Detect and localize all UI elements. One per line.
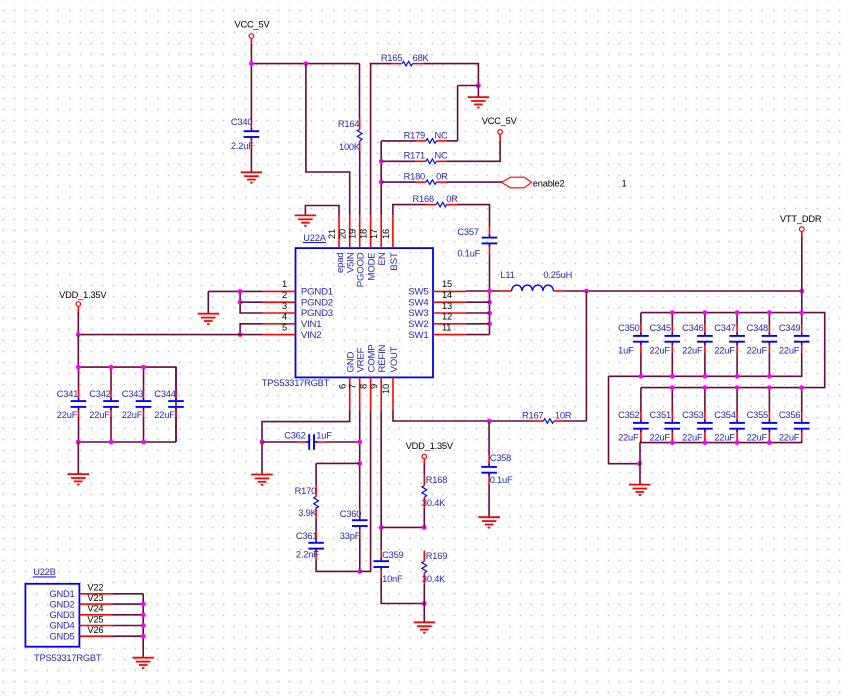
svg-text:0.25uH: 0.25uH [543, 270, 572, 280]
junction at (705,388) [703, 385, 708, 390]
pin 7 VREF (bottom) [348, 347, 367, 410]
svg-text:PGND2: PGND2 [301, 297, 333, 308]
wire GND1 to bus [112, 593, 143, 595]
wire REFIN column (pin 9) [380, 410, 382, 550]
svg-text:22uF: 22uF [650, 433, 671, 443]
capacitor C354 [714, 410, 745, 443]
svg-text:C358: C358 [490, 453, 511, 463]
svg-text:R166: R166 [413, 194, 434, 204]
svg-text:3.9K: 3.9K [298, 508, 317, 518]
junction at (490,291) [487, 289, 492, 294]
junction at (705,313) [703, 310, 708, 315]
wire C356 column [801, 388, 803, 412]
svg-text:22uF: 22uF [682, 433, 703, 443]
svg-text:C348: C348 [747, 323, 768, 333]
ground below C358 [478, 517, 500, 527]
wire VDD down to cap bank [77, 335, 79, 368]
wire C358 branch [488, 421, 490, 456]
junction at (424,527) [422, 525, 427, 530]
wire SW3 row [466, 312, 490, 314]
wire VDD rail to VIN2 [78, 334, 262, 336]
svg-text:GND1: GND1 [49, 589, 74, 599]
wire row1 bottom-left detour [609, 376, 640, 463]
wire VTT down to cap bank [801, 291, 803, 313]
junction at (769,313) [767, 310, 772, 315]
svg-text:L11: L11 [500, 270, 514, 280]
svg-text:4: 4 [282, 312, 287, 322]
resistor R180 [404, 172, 448, 185]
wire SW2 row [466, 323, 490, 325]
pin 8 COMP (bottom) [359, 345, 378, 411]
wire L11 to VTT rail [564, 290, 802, 292]
pin 2 PGND2 (left) [263, 290, 333, 308]
wire EN bus (pin 17) [380, 141, 382, 216]
svg-text:C349: C349 [779, 323, 800, 333]
svg-text:C360: C360 [340, 509, 361, 519]
svg-text:C345: C345 [650, 323, 671, 333]
pin 4 VIN1 (left) [263, 312, 322, 330]
svg-text:10nF: 10nF [382, 574, 403, 584]
junction at (240,302) [238, 300, 243, 305]
svg-text:V22: V22 [87, 583, 103, 593]
svg-text:R171: R171 [404, 151, 425, 161]
svg-text:C346: C346 [682, 323, 703, 333]
wire left bank to ground [77, 442, 79, 474]
wire SW1 row [466, 334, 490, 336]
pin 3 PGND3 (left) [263, 301, 333, 319]
svg-text:BST: BST [389, 252, 400, 270]
resistor R166 [413, 194, 459, 207]
svg-text:VDD_1.35V: VDD_1.35V [59, 290, 107, 300]
svg-text:R180: R180 [404, 172, 425, 182]
svg-text:1: 1 [622, 179, 627, 189]
junction at (737,443) [735, 440, 740, 445]
wire GND3 to bus [112, 614, 143, 616]
svg-text:NC: NC [435, 151, 449, 161]
junction at (737,388) [735, 385, 740, 390]
junction at (143,604) [141, 602, 146, 607]
junction at (78,335) [76, 332, 81, 337]
svg-text:COMP: COMP [367, 345, 378, 373]
wire right bank row1 top-left drop [640, 313, 642, 325]
ground below C362 [251, 475, 273, 485]
pin 9 REFIN (bottom) [369, 344, 388, 410]
svg-text:GND3: GND3 [49, 610, 74, 620]
svg-text:C353: C353 [682, 410, 703, 420]
power symbol VDD_1.35V (right) [406, 441, 454, 467]
resistor R165 [381, 53, 430, 66]
wire pin6 GND to C362 node [262, 410, 350, 442]
junction at (769,443) [767, 440, 772, 445]
svg-text:22uF: 22uF [779, 346, 800, 356]
svg-text:18: 18 [359, 229, 369, 239]
pin 15 SW5 (right) [408, 279, 466, 297]
svg-text:1uF: 1uF [316, 431, 332, 441]
svg-text:U22B: U22B [33, 567, 55, 577]
pin 14 SW4 (right) [408, 290, 466, 308]
svg-text:22uF: 22uF [650, 346, 671, 356]
resistor R171 [404, 151, 448, 164]
svg-text:SW5: SW5 [408, 287, 428, 298]
junction at (240,291) [238, 289, 243, 294]
svg-text:V25: V25 [87, 614, 103, 624]
svg-text:U22A: U22A [303, 233, 326, 243]
wire VCC_5V symbol to rail [250, 44, 252, 64]
wire C347 column [736, 313, 738, 325]
pin 21 epad (top) [327, 215, 346, 273]
svg-text:SW4: SW4 [408, 297, 429, 308]
wire comp rail to COMP pin [359, 537, 361, 571]
wire C340 to ground [250, 148, 252, 172]
wire R180 row left [381, 181, 416, 183]
wire R170 branch [316, 462, 360, 464]
svg-text:30.4K: 30.4K [422, 574, 446, 584]
svg-text:C362: C362 [284, 431, 305, 441]
capacitor C362 [262, 431, 360, 450]
svg-text:21: 21 [327, 229, 337, 239]
svg-text:100K: 100K [339, 142, 361, 152]
inductor L11 [500, 270, 572, 291]
wire BST to R166 (pin 16) [393, 205, 426, 216]
power symbol VTT_DDR [780, 214, 822, 239]
svg-text:3: 3 [282, 301, 287, 311]
svg-text:10: 10 [381, 384, 391, 394]
resistor R168 [422, 475, 447, 509]
svg-text:VIN1: VIN1 [301, 319, 322, 330]
junction at (705,376) [703, 374, 708, 379]
junction at (251,64) [249, 61, 254, 66]
wire C358 to ground [488, 484, 490, 518]
pin V26 GND5 U22B [49, 625, 112, 641]
junction at (424,604) [422, 601, 427, 606]
junction at (143,615) [141, 612, 146, 617]
junction at (381,527) [379, 525, 384, 530]
wire R165 to ground corner [423, 64, 478, 86]
pin 1 PGND1 (left) [263, 279, 333, 297]
svg-text:MODE: MODE [367, 253, 378, 281]
svg-text:7: 7 [348, 384, 358, 389]
capacitor C340 [231, 117, 259, 151]
svg-text:VOUT: VOUT [389, 346, 400, 372]
capacitor C347 [714, 323, 745, 356]
pin 10 VOUT (bottom) [381, 346, 400, 410]
wire C340 branch down [250, 64, 252, 121]
junction at (802,313) [799, 310, 804, 315]
junction at (586,291) [584, 289, 589, 294]
ground U22B [132, 658, 154, 668]
wire C354 column [736, 388, 738, 412]
wire C355 column [768, 388, 770, 412]
svg-text:V23: V23 [87, 593, 103, 603]
svg-text:8: 8 [359, 384, 369, 389]
wire to ground [423, 604, 425, 623]
capacitor C349 [779, 323, 810, 356]
junction at (78,367) [76, 365, 81, 370]
svg-text:enable2: enable2 [533, 179, 565, 189]
svg-text:SW3: SW3 [408, 308, 428, 319]
pin 5 VIN2 (left) [263, 322, 322, 340]
junction at (737,376) [735, 374, 740, 379]
IC U22B (TPS53317RGBT ground pins) [25, 567, 101, 663]
svg-text:22uF: 22uF [618, 433, 639, 443]
pin 20 V5IN (top) [338, 215, 357, 273]
svg-text:C352: C352 [618, 410, 639, 420]
junction at (143,636) [141, 634, 146, 639]
pin 16 BST (top) [381, 215, 400, 270]
wire V5IN branch (pin 20) [306, 64, 350, 216]
svg-text:R168: R168 [426, 475, 447, 485]
wire MODE to R165 (pin 18) [371, 64, 392, 216]
junction at (672,443) [670, 440, 675, 445]
power symbol VDD_1.35V (left) [59, 290, 107, 314]
wire SW5 row to L11 [466, 290, 501, 292]
wire to ground (R165 net) [477, 86, 479, 98]
junction at (769,376) [767, 374, 772, 379]
svg-text:PGND1: PGND1 [301, 287, 333, 298]
wire GND2 to bus [112, 603, 143, 605]
svg-text:2.2nF: 2.2nF [296, 550, 319, 560]
capacitor C352 [618, 410, 649, 443]
junction at (672,376) [670, 374, 675, 379]
wire R180 right to port [447, 181, 503, 183]
wire R169 bottom [423, 584, 425, 604]
svg-text:R165: R165 [381, 53, 402, 63]
svg-text:22uF: 22uF [714, 346, 735, 356]
svg-text:C359: C359 [382, 550, 403, 560]
junction at (143,626) [141, 623, 146, 628]
wire U22B ground bus [142, 594, 144, 658]
resistor R179 [404, 130, 448, 143]
svg-text:C341: C341 [57, 389, 78, 399]
wire R170 to C361 [315, 518, 317, 532]
wire C343 column [143, 367, 145, 391]
svg-text:NC: NC [435, 130, 449, 140]
svg-text:0.1uF: 0.1uF [457, 249, 480, 259]
svg-text:VDD_1.35V: VDD_1.35V [406, 441, 454, 451]
capacitor C344 [154, 389, 184, 420]
svg-text:22uF: 22uF [89, 410, 110, 420]
junction at (490,313) [487, 311, 492, 316]
svg-text:GND4: GND4 [49, 621, 74, 631]
wire VDD symbol down [77, 312, 79, 335]
svg-text:5: 5 [282, 322, 287, 332]
svg-text:17: 17 [369, 229, 379, 239]
junction at (111,442) [109, 440, 114, 445]
junction at (381,161) [379, 159, 384, 164]
power symbol VCC_5V (top left) [235, 19, 271, 46]
svg-text:1uF: 1uF [618, 346, 634, 356]
wire PGND ground branch [207, 291, 209, 313]
svg-text:6: 6 [338, 384, 348, 389]
svg-text:C342: C342 [89, 389, 110, 399]
junction at (306,64) [304, 61, 309, 66]
capacitor C359 [373, 550, 403, 584]
svg-text:C361: C361 [296, 531, 317, 541]
wire VCC rail [251, 63, 359, 65]
capacitor C346 [682, 323, 713, 356]
svg-text:68K: 68K [413, 53, 430, 63]
capacitor C357 [457, 227, 497, 259]
svg-text:VCC_5V: VCC_5V [235, 19, 271, 29]
wire C361 to comp rail [316, 560, 360, 572]
capacitor C356 [779, 410, 810, 443]
svg-text:REFIN: REFIN [377, 344, 388, 372]
svg-text:22uF: 22uF [714, 433, 735, 443]
junction at (360,463) [357, 461, 362, 466]
svg-text:R179: R179 [404, 130, 425, 140]
off-page port enable2 [502, 177, 565, 188]
svg-text:19: 19 [348, 229, 358, 239]
svg-text:SW1: SW1 [408, 330, 428, 341]
wire R166 right to C357 [457, 205, 490, 227]
capacitor C345 [650, 323, 681, 356]
svg-text:0R: 0R [436, 172, 448, 182]
power symbol VCC_5V (second) [482, 116, 518, 142]
junction at (262,442) [260, 440, 265, 445]
wire row2 left down to ground [639, 443, 641, 485]
capacitor C361 [296, 531, 324, 559]
wire PGND bus [240, 291, 263, 313]
junction at (111,367) [109, 365, 114, 370]
wire right bank row1 bottom bus [609, 353, 802, 377]
wire left bank bottom bus [78, 441, 176, 443]
svg-text:16: 16 [381, 229, 391, 239]
svg-text:C344: C344 [154, 389, 175, 399]
wire GND4 to bus [112, 625, 143, 627]
pin 18 MODE (top) [359, 215, 378, 280]
svg-text:C340: C340 [231, 117, 252, 127]
junction at (144,442) [141, 440, 146, 445]
svg-text:C351: C351 [650, 410, 671, 420]
svg-text:R169: R169 [426, 551, 447, 561]
ground for R165/R179 node [468, 97, 490, 107]
svg-text:epad: epad [335, 253, 346, 274]
wire right bank row1 top bus [641, 313, 825, 388]
capacitor C353 [682, 410, 713, 443]
svg-text:22uF: 22uF [122, 410, 143, 420]
svg-text:22uF: 22uF [747, 433, 768, 443]
pin V22 GND1 U22B [49, 583, 112, 599]
wire VDD to R168 [423, 465, 425, 475]
wire C349 column [801, 313, 803, 325]
junction at (802,291) [799, 289, 804, 294]
wire R164/PGOOD branch (pin 19) [359, 64, 361, 119]
wire R171 row left [381, 160, 416, 162]
svg-text:C350: C350 [618, 323, 639, 333]
pin 17 EN (top) [369, 215, 388, 265]
wire VOUT rail (pin 10) [393, 410, 533, 421]
wire VIN1 branch [240, 324, 263, 335]
wire left bank top bus [78, 367, 176, 442]
wire C344 column [175, 367, 177, 391]
ground left bank [68, 474, 90, 484]
junction at (360,571) [357, 569, 362, 574]
wire SW4 row [466, 301, 490, 303]
pin 19 PGOOD (top) [348, 215, 367, 287]
wire epad to ground [305, 206, 339, 216]
capacitor C358 [481, 453, 513, 485]
resistor R170 [295, 486, 319, 519]
svg-text:33pF: 33pF [340, 531, 361, 541]
pin 11 SW1 (right) [408, 322, 466, 340]
svg-text:11: 11 [442, 322, 451, 332]
svg-text:VTT_DDR: VTT_DDR [780, 214, 822, 224]
wire right bank row2 top bus [641, 387, 802, 389]
junction at (490,324) [487, 321, 492, 326]
svg-text:0R: 0R [446, 194, 458, 204]
pin V25 GND4 U22B [49, 614, 112, 630]
wire REFIN to divider node [381, 526, 424, 528]
capacitor C355 [747, 410, 778, 443]
op-amp U22A (TPS53317RGBT regulator symbol) [262, 233, 433, 388]
svg-text:20: 20 [338, 229, 348, 239]
pin V24 GND3 U22B [49, 604, 112, 620]
svg-text:22uF: 22uF [682, 346, 703, 356]
junction at (78,442) [76, 440, 81, 445]
svg-text:C357: C357 [457, 227, 478, 237]
wire C345 column [671, 313, 673, 325]
wire VTT symbol down [801, 237, 803, 291]
svg-text:22uF: 22uF [154, 410, 175, 420]
svg-text:13: 13 [442, 301, 452, 311]
svg-text:TPS53317RGBT: TPS53317RGBT [262, 378, 330, 388]
svg-text:GND5: GND5 [49, 631, 74, 641]
svg-text:PGOOD: PGOOD [356, 252, 367, 287]
svg-text:0.1uF: 0.1uF [490, 475, 513, 485]
wire SW bus vertical [489, 291, 491, 335]
svg-text:C347: C347 [714, 323, 735, 333]
svg-text:14: 14 [442, 290, 452, 300]
svg-text:1: 1 [282, 279, 287, 289]
junction at (78,367) [76, 365, 81, 370]
wire VREF column (pin 7) [359, 410, 361, 509]
junction at (640,464) [637, 461, 642, 466]
wire R171 right to VCC_5V [447, 142, 500, 162]
wire R167 right up to SW node [564, 420, 586, 422]
capacitor C342 [89, 389, 119, 420]
svg-text:22uF: 22uF [779, 433, 800, 443]
svg-text:EN: EN [377, 252, 388, 265]
capacitor C341 [57, 389, 87, 420]
svg-text:2: 2 [282, 290, 287, 300]
svg-text:VREF: VREF [356, 347, 367, 372]
pin 12 SW2 (right) [408, 312, 466, 330]
svg-text:VCC_5V: VCC_5V [482, 116, 518, 126]
junction at (705,443) [703, 440, 708, 445]
wire C348 column [768, 313, 770, 325]
wire C342 column [110, 367, 112, 391]
resistor R164 [338, 118, 362, 151]
capacitor C351 [650, 410, 681, 443]
wire PGND1 row [208, 290, 262, 292]
wire R179 branch from ground node [458, 85, 479, 87]
ground for epad [295, 215, 317, 225]
svg-text:PGND3: PGND3 [301, 308, 333, 319]
junction at (240,335) [238, 332, 243, 337]
junction at (769,388) [767, 385, 772, 390]
junction at (489,421) [487, 419, 492, 424]
wire R168 to node [423, 508, 425, 527]
svg-text:V24: V24 [87, 604, 103, 614]
wire C357 to SW node [489, 254, 491, 291]
wire C341 column [78, 367, 80, 391]
svg-text:30.4K: 30.4K [422, 498, 446, 508]
wire row2 top-left drop [640, 388, 642, 412]
pin V23 GND2 U22B [49, 593, 112, 609]
junction at (381,182) [379, 180, 384, 185]
svg-text:V26: V26 [87, 625, 103, 635]
capacitor C360 [340, 509, 368, 541]
